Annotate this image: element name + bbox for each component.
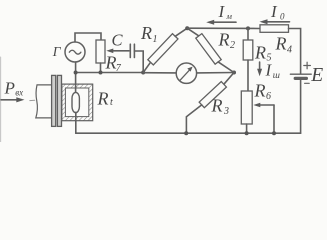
label E — [310, 65, 323, 86]
wire R4 to battery — [289, 29, 301, 74]
resistor R4 — [260, 25, 289, 33]
resistor R5 — [247, 28, 249, 40]
svg-text:R: R — [218, 29, 230, 49]
resistor R2 (bridge arm) — [187, 28, 199, 36]
wiper arrow into R6 — [259, 104, 275, 106]
node generator junction — [74, 71, 78, 75]
svg-text:R: R — [140, 23, 152, 43]
thermistor mount box (hatched walls) — [62, 84, 93, 121]
svg-text:t: t — [110, 97, 113, 108]
label R1 — [140, 23, 158, 45]
resistor R1 (bridge arm) — [143, 62, 150, 72]
svg-text:2: 2 — [230, 40, 235, 51]
wire R6 bottom — [246, 124, 248, 133]
svg-text:C: C — [112, 30, 124, 49]
svg-text:м: м — [226, 11, 233, 21]
arrow I_sh — [259, 62, 261, 72]
svg-text:0: 0 — [280, 12, 285, 22]
node bridge right — [232, 71, 236, 75]
label R4 — [275, 34, 293, 56]
wire generator top to R7 top — [75, 33, 101, 42]
svg-text:ш: ш — [273, 71, 280, 81]
wire C to bridge left node — [134, 51, 143, 73]
node wiper wire bottom — [272, 131, 276, 135]
svg-text:R: R — [97, 89, 109, 109]
top supply wire — [187, 27, 260, 29]
node R5 branch top — [246, 26, 250, 30]
label I_m — [218, 2, 233, 21]
flange bar 2 — [57, 75, 61, 126]
wiper arrow into R7 — [112, 50, 130, 52]
main horizontal wire (generator to bridge left node) — [76, 72, 144, 74]
generator G (AC source) — [65, 42, 85, 62]
node bridge top — [185, 26, 189, 30]
capacitor C — [129, 44, 131, 57]
svg-text:1: 1 — [153, 34, 158, 45]
wire left node to galvanometer — [143, 72, 176, 74]
galvanometer — [176, 63, 196, 83]
node R7 bottom junction — [99, 71, 103, 75]
svg-text:R: R — [211, 96, 223, 116]
label Gamma — [52, 44, 62, 59]
svg-text:4: 4 — [287, 44, 292, 55]
label R7 — [105, 53, 122, 74]
node bridge left — [141, 71, 145, 75]
label R3 — [211, 96, 230, 118]
flange bar 1 — [52, 75, 56, 126]
wire R5 to R6 — [247, 60, 249, 91]
label I_sh — [265, 61, 280, 81]
svg-text:6: 6 — [266, 91, 271, 102]
svg-text:R: R — [275, 34, 287, 54]
arrow P_vx input — [1, 99, 19, 101]
wire generator bottom lead — [75, 62, 77, 93]
waveguide pipe — [36, 85, 52, 118]
node R6 bottom — [245, 131, 249, 135]
wire R6 wiper to rail — [273, 105, 275, 133]
wire R7 bottom — [100, 63, 102, 73]
svg-text:E: E — [310, 65, 323, 86]
svg-text:P: P — [4, 79, 15, 98]
svg-text:3: 3 — [223, 106, 229, 117]
svg-text:Γ: Γ — [52, 44, 62, 59]
bottom rail wire — [76, 132, 301, 134]
wire battery to rail — [300, 80, 302, 133]
label I_0 — [270, 2, 285, 21]
svg-text:R: R — [105, 53, 117, 73]
label R5 — [254, 43, 272, 64]
thermistor Rt — [72, 92, 79, 112]
svg-text:I: I — [270, 2, 278, 21]
resistor R7 — [96, 40, 105, 63]
label Rt — [97, 89, 114, 109]
label R6 — [254, 80, 272, 102]
battery plus sign — [304, 62, 311, 69]
svg-text:I: I — [218, 2, 226, 21]
arrow I_m — [213, 21, 237, 23]
svg-text:R: R — [254, 80, 266, 100]
node bridge bottom — [184, 131, 188, 135]
svg-text:вх: вх — [15, 87, 23, 97]
wire thermistor bottom lead — [75, 112, 77, 133]
arrow I_0 — [266, 21, 290, 23]
label R2 — [218, 29, 236, 51]
svg-text:R: R — [254, 43, 266, 63]
resistor R6 — [241, 91, 252, 124]
scan artifact left edge — [0, 57, 2, 142]
wire galvanometer to right node — [197, 72, 234, 74]
label P_vx — [4, 79, 24, 98]
battery E plates — [290, 73, 311, 75]
label C — [112, 30, 124, 49]
resistor R3 (bridge arm) — [224, 73, 234, 85]
battery minus sign — [305, 82, 310, 84]
